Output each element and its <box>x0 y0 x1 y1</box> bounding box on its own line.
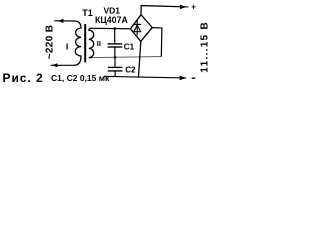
capacitor C2 plates <box>108 66 123 68</box>
arrow mains top (points left) <box>58 19 64 23</box>
wire primary bottom lead <box>51 64 75 66</box>
junction node C1/C2 midpoint <box>114 56 117 59</box>
label minus <box>192 77 196 79</box>
stub after + arrow <box>186 6 188 8</box>
svg-text:C1: C1 <box>124 42 135 51</box>
diode inside VD1: lead <box>136 19 138 35</box>
capacitor C2 top lead <box>114 57 116 67</box>
arrow mains bottom (points left) <box>52 63 58 67</box>
svg-text:+: + <box>191 3 196 12</box>
arrow output + (points right) <box>180 5 187 9</box>
bridge rectifier VD1 diamond <box>130 15 152 42</box>
transformer T1 secondary winding II <box>89 28 94 57</box>
capacitor C1 bottom lead <box>114 48 116 58</box>
arrow output - (points right) <box>180 76 186 80</box>
wire bridge DC+ to output <box>141 6 187 15</box>
svg-text:II: II <box>97 39 101 48</box>
transformer T1 primary winding I <box>74 21 81 65</box>
junction node top of C1 <box>113 27 116 30</box>
diode inside VD1: anode triangle <box>134 25 141 32</box>
svg-text:Рис. 2: Рис. 2 <box>3 71 44 85</box>
svg-text:I: I <box>66 41 68 51</box>
wire primary top lead <box>54 20 74 22</box>
wire secondary top to bridge AC1 <box>92 27 131 30</box>
capacitor C1 plates <box>108 43 123 45</box>
transformer T1 core <box>84 24 86 62</box>
wire secondary bottom (AC2 node) <box>92 57 161 58</box>
capacitor C2 bottom lead <box>114 71 116 76</box>
diode inside VD1: cathode bar <box>133 23 141 25</box>
wire bridge AC2 (right vertex) down <box>152 28 162 57</box>
svg-text:C2: C2 <box>125 65 136 74</box>
svg-text:VD1: VD1 <box>104 6 121 16</box>
svg-text:КЦ407А: КЦ407А <box>95 15 128 25</box>
bottom rail DC- <box>104 76 186 78</box>
svg-text:~220 В: ~220 В <box>44 25 55 60</box>
svg-text:Т1: Т1 <box>82 8 93 18</box>
wire bridge DC- down <box>139 41 141 77</box>
capacitor C1 top lead <box>114 29 116 44</box>
svg-text:11...15 В: 11...15 В <box>200 21 210 73</box>
svg-text:С1, С2 0,15 мк: С1, С2 0,15 мк <box>51 73 110 83</box>
